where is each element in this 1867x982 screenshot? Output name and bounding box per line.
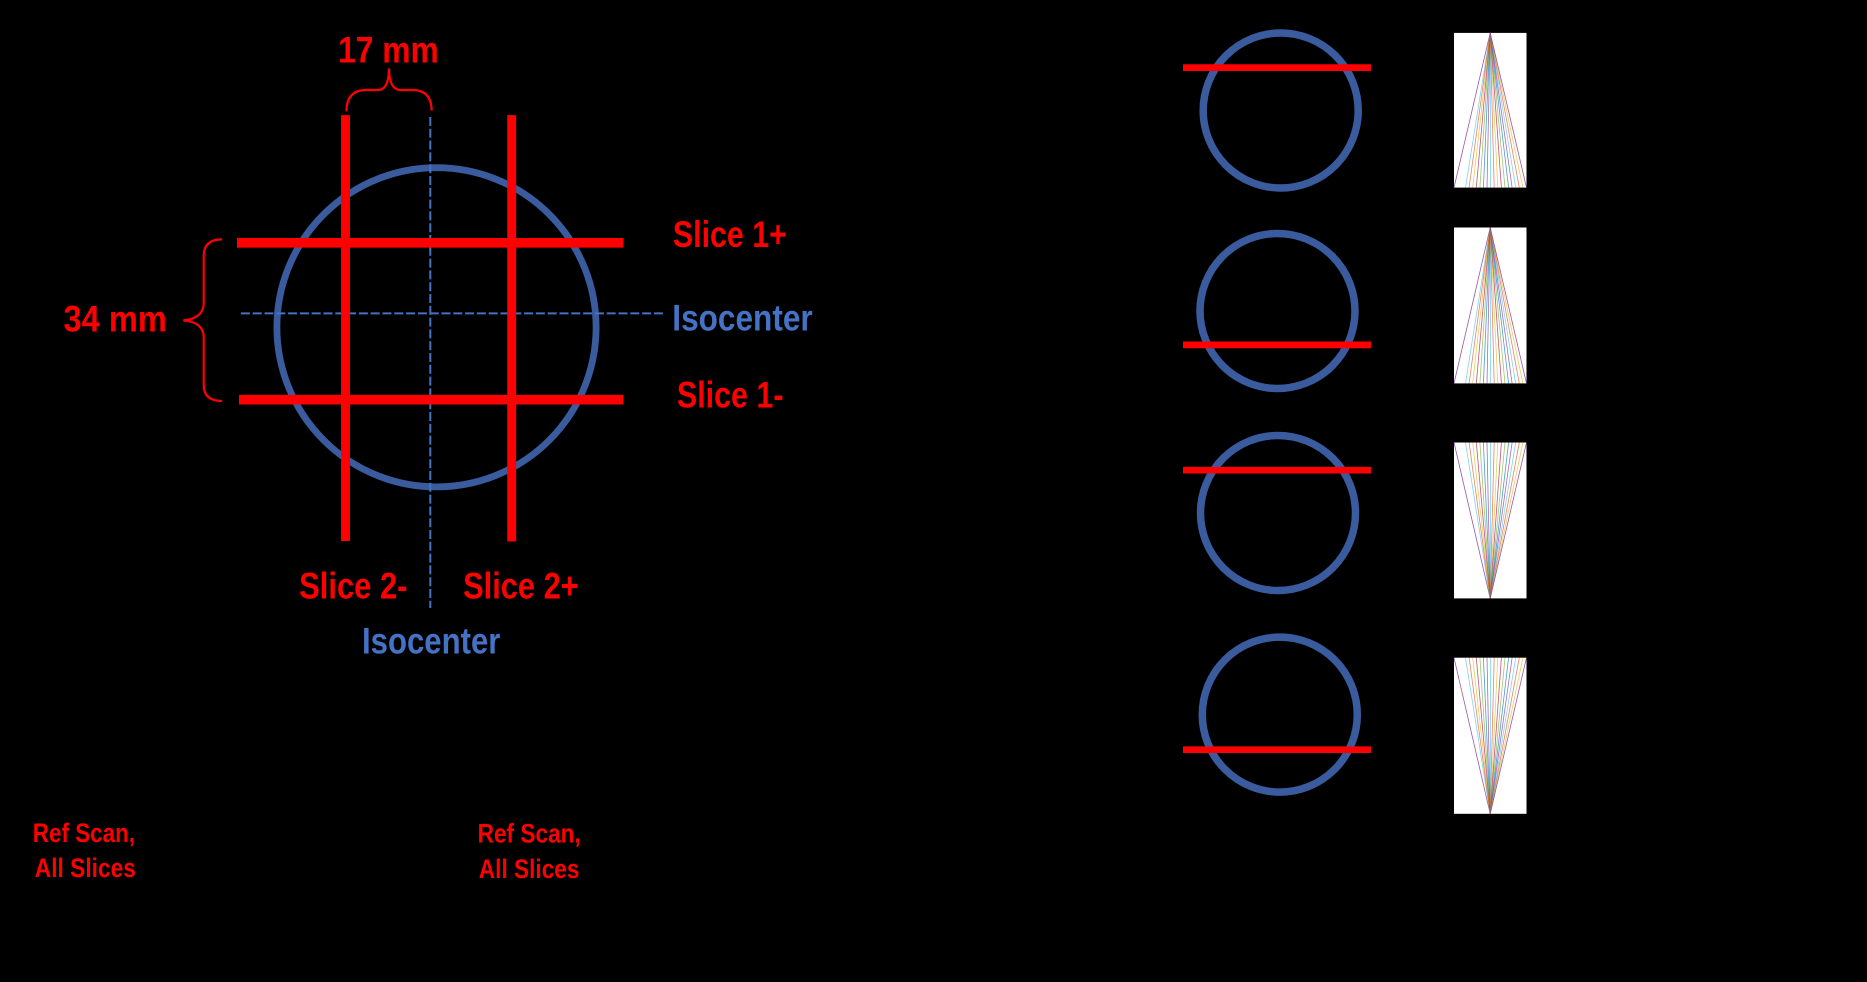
svg-text:Slice 1+: Slice 1+ [673,214,787,255]
white profile panel row 1 [1454,33,1527,188]
svg-text:Slice 1-: Slice 1- [677,374,784,415]
svg-text:Slice 2-: Slice 2- [299,566,407,607]
phantom circle row 4 [1202,637,1357,792]
slice red line row 2 [1183,342,1371,349]
isocenter dashed vertical line [429,117,431,608]
white profile panel row 4 [1454,658,1527,814]
svg-text:All Slices: All Slices [35,853,136,883]
slice 1+ red horizontal line [237,238,623,248]
excitation fan row 2 [1454,228,1527,384]
isocenter dashed horizontal line [241,312,665,314]
slice 1- red horizontal line [239,395,623,405]
phantom circle (left) [277,168,596,487]
17mm brace (top, cusp up) [347,69,432,112]
excitation fan row 1 [1454,33,1527,188]
phantom circle row 3 [1201,436,1356,591]
svg-text:Slice 2+: Slice 2+ [463,566,579,607]
slice red line row 4 [1183,746,1371,753]
slice 2- red vertical line [341,115,350,541]
svg-text:17 mm: 17 mm [338,30,439,71]
34mm brace (left, cusp left) [183,239,222,401]
excitation fan row 3 [1454,443,1527,599]
phantom circle row 2 [1200,234,1355,389]
slice red line row 3 [1183,467,1371,474]
white profile panel row 3 [1454,443,1527,599]
slice red line row 1 [1183,64,1371,71]
white profile panel row 2 [1454,228,1527,384]
phantom circle row 1 [1203,33,1358,188]
excitation fan row 4 [1454,658,1527,814]
svg-text:Isocenter: Isocenter [672,298,812,339]
svg-text:Ref Scan,: Ref Scan, [33,818,135,848]
svg-text:All Slices: All Slices [479,854,580,884]
svg-text:34 mm: 34 mm [64,299,167,340]
svg-text:Isocenter: Isocenter [362,620,500,661]
slice 2+ red vertical line [507,115,516,541]
svg-text:Ref Scan,: Ref Scan, [478,819,581,849]
